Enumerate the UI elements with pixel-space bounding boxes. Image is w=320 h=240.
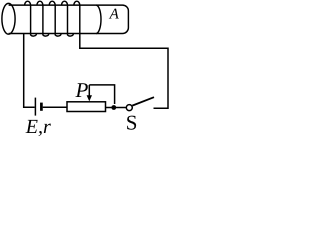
rheostat slider arrow shaft: [88, 85, 90, 96]
coil L turn 2: [37, 1, 49, 36]
solenoid former cylinder A: left end ellipse: [2, 3, 15, 34]
wire: box right side to switch: [106, 107, 127, 109]
coil L turn 3: [49, 1, 61, 36]
rheostat slider arrowhead: [87, 95, 92, 101]
coil L turn 4: [62, 1, 74, 36]
cylinder top edge: [9, 4, 123, 6]
cylinder right end cap arc: [123, 5, 129, 33]
svg-text:S: S: [126, 111, 138, 135]
svg-text:E,r: E,r: [25, 116, 51, 138]
switch S pivot open circle: [126, 105, 132, 111]
slider wire up and over to junction: [89, 85, 114, 104]
svg-text:A: A: [109, 7, 120, 23]
rheostat P resistor box: [67, 102, 106, 112]
coil L turn 1: [25, 1, 37, 36]
coil L turn 5: [74, 1, 80, 33]
battery E,r short thick plate: [40, 103, 43, 111]
svg-text:P: P: [75, 78, 89, 102]
junction node dot: [111, 105, 116, 110]
cylinder bottom edge: [9, 33, 123, 35]
battery E,r long plate: [34, 98, 36, 116]
switch lever: [132, 97, 154, 105]
cylinder inner rim arc: [96, 5, 101, 33]
wire: battery to rheostat: [43, 106, 67, 108]
wire: left lead from coil down to battery: [24, 34, 35, 108]
wire: right lead from coil down and around to switch contact: [80, 34, 168, 109]
